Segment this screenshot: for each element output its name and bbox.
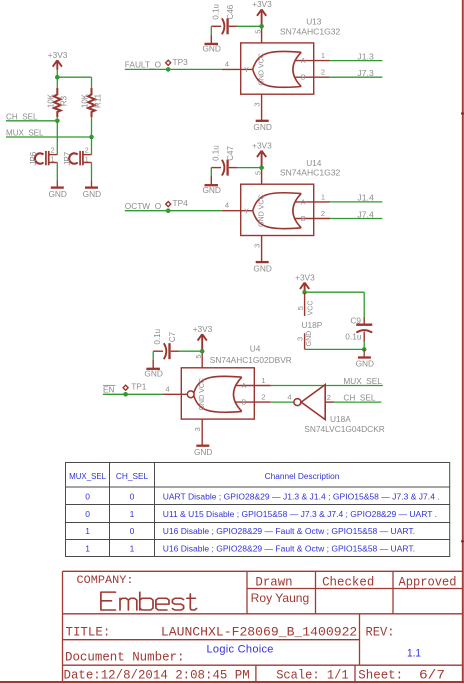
svg-text:Checked: Checked — [322, 575, 374, 590]
svg-text:GND VCC: GND VCC — [258, 194, 265, 227]
svg-text:GND VCC: GND VCC — [199, 378, 206, 411]
svg-text:0: 0 — [130, 526, 135, 536]
svg-text:JP7: JP7 — [63, 151, 72, 165]
svg-text:1: 1 — [85, 156, 89, 163]
svg-text:TITLE:: TITLE: — [66, 624, 111, 639]
svg-text:A: A — [241, 383, 246, 390]
svg-text:Roy Yaung: Roy Yaung — [251, 591, 309, 605]
svg-text:1: 1 — [321, 51, 325, 60]
svg-text:Scale: 1/1: Scale: 1/1 — [276, 667, 349, 682]
svg-text:Logic Choice: Logic Choice — [207, 644, 274, 656]
svg-text:Y: Y — [244, 208, 249, 215]
svg-text:+3V3: +3V3 — [295, 272, 315, 282]
svg-text:SN74AHC1G32: SN74AHC1G32 — [280, 26, 341, 36]
svg-text:0: 0 — [130, 492, 135, 502]
svg-text:GND: GND — [194, 447, 212, 457]
svg-text:TP3: TP3 — [173, 57, 189, 67]
svg-text:UART Disable ; GPIO28&29 — J1.: UART Disable ; GPIO28&29 — J1.3 & J1.4 ;… — [163, 492, 440, 502]
svg-text:C46: C46 — [226, 4, 235, 19]
svg-text:U16 Disable ; GPIO28&29 — Faul: U16 Disable ; GPIO28&29 — Fault & Octw ;… — [163, 543, 415, 553]
svg-text:GND: GND — [48, 189, 66, 199]
svg-text:U14: U14 — [306, 158, 322, 168]
svg-text:U18P: U18P — [302, 320, 323, 330]
svg-text:1: 1 — [130, 509, 135, 519]
svg-text:4: 4 — [225, 201, 229, 210]
svg-text:Drawn: Drawn — [255, 575, 292, 590]
svg-text:C7: C7 — [168, 331, 177, 342]
svg-text:3: 3 — [253, 244, 262, 248]
svg-text:GND: GND — [144, 369, 162, 379]
svg-text:MUX_SEL: MUX_SEL — [69, 471, 106, 481]
svg-text:SN74AHC1G32: SN74AHC1G32 — [280, 168, 341, 178]
svg-text:GND: GND — [306, 331, 313, 347]
svg-text:U16 Disable ; GPIO28&29 — Faul: U16 Disable ; GPIO28&29 — Fault & Octw ;… — [163, 526, 415, 536]
svg-text:5: 5 — [194, 355, 203, 359]
svg-text:U18A: U18A — [330, 414, 351, 424]
svg-text:C47: C47 — [226, 146, 235, 161]
svg-text:Approved: Approved — [399, 575, 457, 590]
svg-text:LAUNCHXL-F28069_B_1400922: LAUNCHXL-F28069_B_1400922 — [161, 624, 357, 639]
svg-text:Channel Description: Channel Description — [265, 471, 340, 481]
svg-text:+3V3: +3V3 — [252, 140, 272, 150]
svg-text:0: 0 — [85, 509, 90, 519]
svg-text:TP4: TP4 — [173, 198, 189, 208]
svg-text:0.1u: 0.1u — [153, 329, 162, 345]
svg-text:GND: GND — [253, 263, 271, 273]
svg-text:10K: 10K — [81, 93, 90, 108]
svg-text:2: 2 — [321, 209, 325, 218]
svg-text:6/7: 6/7 — [419, 667, 445, 682]
svg-text:1: 1 — [261, 376, 265, 385]
svg-text:GND: GND — [202, 44, 220, 54]
svg-text:TP1: TP1 — [131, 382, 147, 392]
svg-text:4: 4 — [166, 384, 170, 393]
svg-text:U11 & U15 Disable ; GPIO15&58: U11 & U15 Disable ; GPIO15&58 — J7.3 & J… — [163, 509, 437, 519]
svg-text:GND: GND — [202, 185, 220, 195]
svg-text:VCC: VCC — [307, 301, 314, 316]
svg-text:R11: R11 — [94, 93, 103, 108]
svg-text:MUX_SEL: MUX_SEL — [6, 128, 44, 138]
svg-text:1: 1 — [85, 543, 90, 553]
svg-text:REV:: REV: — [366, 624, 395, 639]
svg-text:0.1u: 0.1u — [211, 4, 220, 20]
svg-text:3: 3 — [253, 102, 262, 106]
svg-text:GND: GND — [83, 189, 101, 199]
svg-text:3: 3 — [296, 337, 305, 341]
svg-text:0.1u: 0.1u — [211, 145, 220, 161]
svg-text:J7.4: J7.4 — [357, 209, 374, 219]
svg-text:4: 4 — [287, 393, 291, 402]
svg-text:2: 2 — [51, 148, 55, 155]
svg-text:A: A — [301, 58, 306, 65]
svg-text:1: 1 — [85, 526, 90, 536]
svg-text:+3V3: +3V3 — [193, 324, 213, 334]
svg-text:1.1: 1.1 — [407, 648, 421, 660]
svg-text:Document Number:: Document Number: — [65, 650, 185, 665]
svg-text:JP6: JP6 — [29, 151, 38, 165]
svg-text:4: 4 — [225, 59, 229, 68]
svg-text:5: 5 — [296, 306, 305, 310]
svg-text:10K: 10K — [46, 93, 55, 108]
svg-text:2: 2 — [321, 68, 325, 77]
svg-text:5: 5 — [253, 171, 262, 175]
svg-text:3: 3 — [193, 427, 202, 431]
svg-text:CH_SEL: CH_SEL — [343, 393, 375, 403]
svg-text:1: 1 — [130, 543, 135, 553]
svg-text:FAULT_O: FAULT_O — [125, 60, 162, 70]
svg-text:GND VCC: GND VCC — [258, 53, 265, 86]
svg-text:OCTW_O: OCTW_O — [125, 201, 162, 211]
svg-text:+3V3: +3V3 — [252, 0, 272, 9]
svg-text:U4: U4 — [250, 343, 261, 353]
svg-text:1: 1 — [51, 156, 55, 163]
svg-text:2: 2 — [85, 148, 89, 155]
svg-text:GND: GND — [356, 359, 374, 369]
svg-text:0: 0 — [85, 492, 90, 502]
svg-text:SN74LVC1G04DCKR: SN74LVC1G04DCKR — [304, 424, 385, 434]
svg-text:U13: U13 — [306, 17, 322, 27]
svg-text:Y: Y — [244, 67, 249, 74]
svg-text:0.1u: 0.1u — [345, 332, 362, 342]
svg-text:2: 2 — [261, 393, 265, 402]
svg-text:J1.4: J1.4 — [357, 193, 374, 203]
svg-text:J7.3: J7.3 — [357, 68, 374, 78]
svg-text:Date:12/8/2014 2:08:45 PM: Date:12/8/2014 2:08:45 PM — [64, 667, 250, 682]
svg-text:5: 5 — [253, 30, 262, 34]
svg-text:B: B — [301, 75, 306, 82]
svg-text:GND: GND — [253, 122, 271, 132]
svg-text:2: 2 — [327, 393, 331, 402]
svg-text:1: 1 — [321, 192, 325, 201]
svg-text:CH_SEL: CH_SEL — [6, 111, 38, 121]
svg-text:SN74AHC1G02DBVR: SN74AHC1G02DBVR — [210, 355, 292, 365]
svg-text:EN: EN — [103, 385, 115, 395]
svg-text:B: B — [241, 400, 246, 407]
svg-text:R3: R3 — [60, 95, 69, 106]
svg-text:C9: C9 — [350, 316, 361, 326]
svg-text:Sheet:: Sheet: — [358, 667, 403, 682]
svg-text:J1.3: J1.3 — [357, 51, 374, 61]
svg-text:CH_SEL: CH_SEL — [116, 471, 149, 481]
svg-text:+3V3: +3V3 — [48, 50, 68, 60]
svg-text:MUX_SEL: MUX_SEL — [343, 376, 382, 386]
svg-text:COMPANY:: COMPANY: — [77, 575, 134, 587]
svg-text:A: A — [301, 199, 306, 206]
svg-text:B: B — [301, 216, 306, 223]
